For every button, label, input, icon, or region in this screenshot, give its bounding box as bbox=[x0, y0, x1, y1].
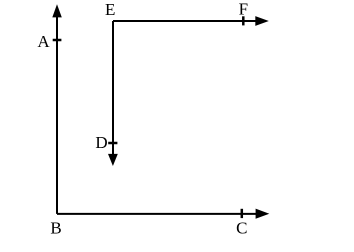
arrowhead right (ray BC) bbox=[256, 209, 270, 219]
svg-text:D: D bbox=[95, 133, 107, 152]
tick mark at point F bbox=[242, 16, 245, 25]
svg-text:B: B bbox=[50, 219, 61, 238]
ray from B upward through A (line BA) bbox=[56, 16, 58, 214]
tick mark at point D bbox=[108, 142, 117, 145]
tick mark at point A bbox=[53, 39, 62, 42]
svg-text:C: C bbox=[236, 219, 247, 238]
arrowhead down (ray ED) bbox=[108, 154, 118, 166]
svg-text:A: A bbox=[37, 32, 50, 51]
svg-text:F: F bbox=[239, 0, 248, 19]
tick mark at point C bbox=[241, 209, 244, 218]
ray from B rightward through C (line BC) bbox=[57, 213, 257, 215]
ray from E downward through D (line ED) bbox=[112, 21, 114, 155]
arrowhead up (ray BA) bbox=[52, 4, 62, 17]
arrowhead right (ray EF) bbox=[255, 16, 268, 26]
ray from E rightward through F (line EF) bbox=[113, 20, 257, 22]
svg-text:E: E bbox=[105, 0, 115, 19]
